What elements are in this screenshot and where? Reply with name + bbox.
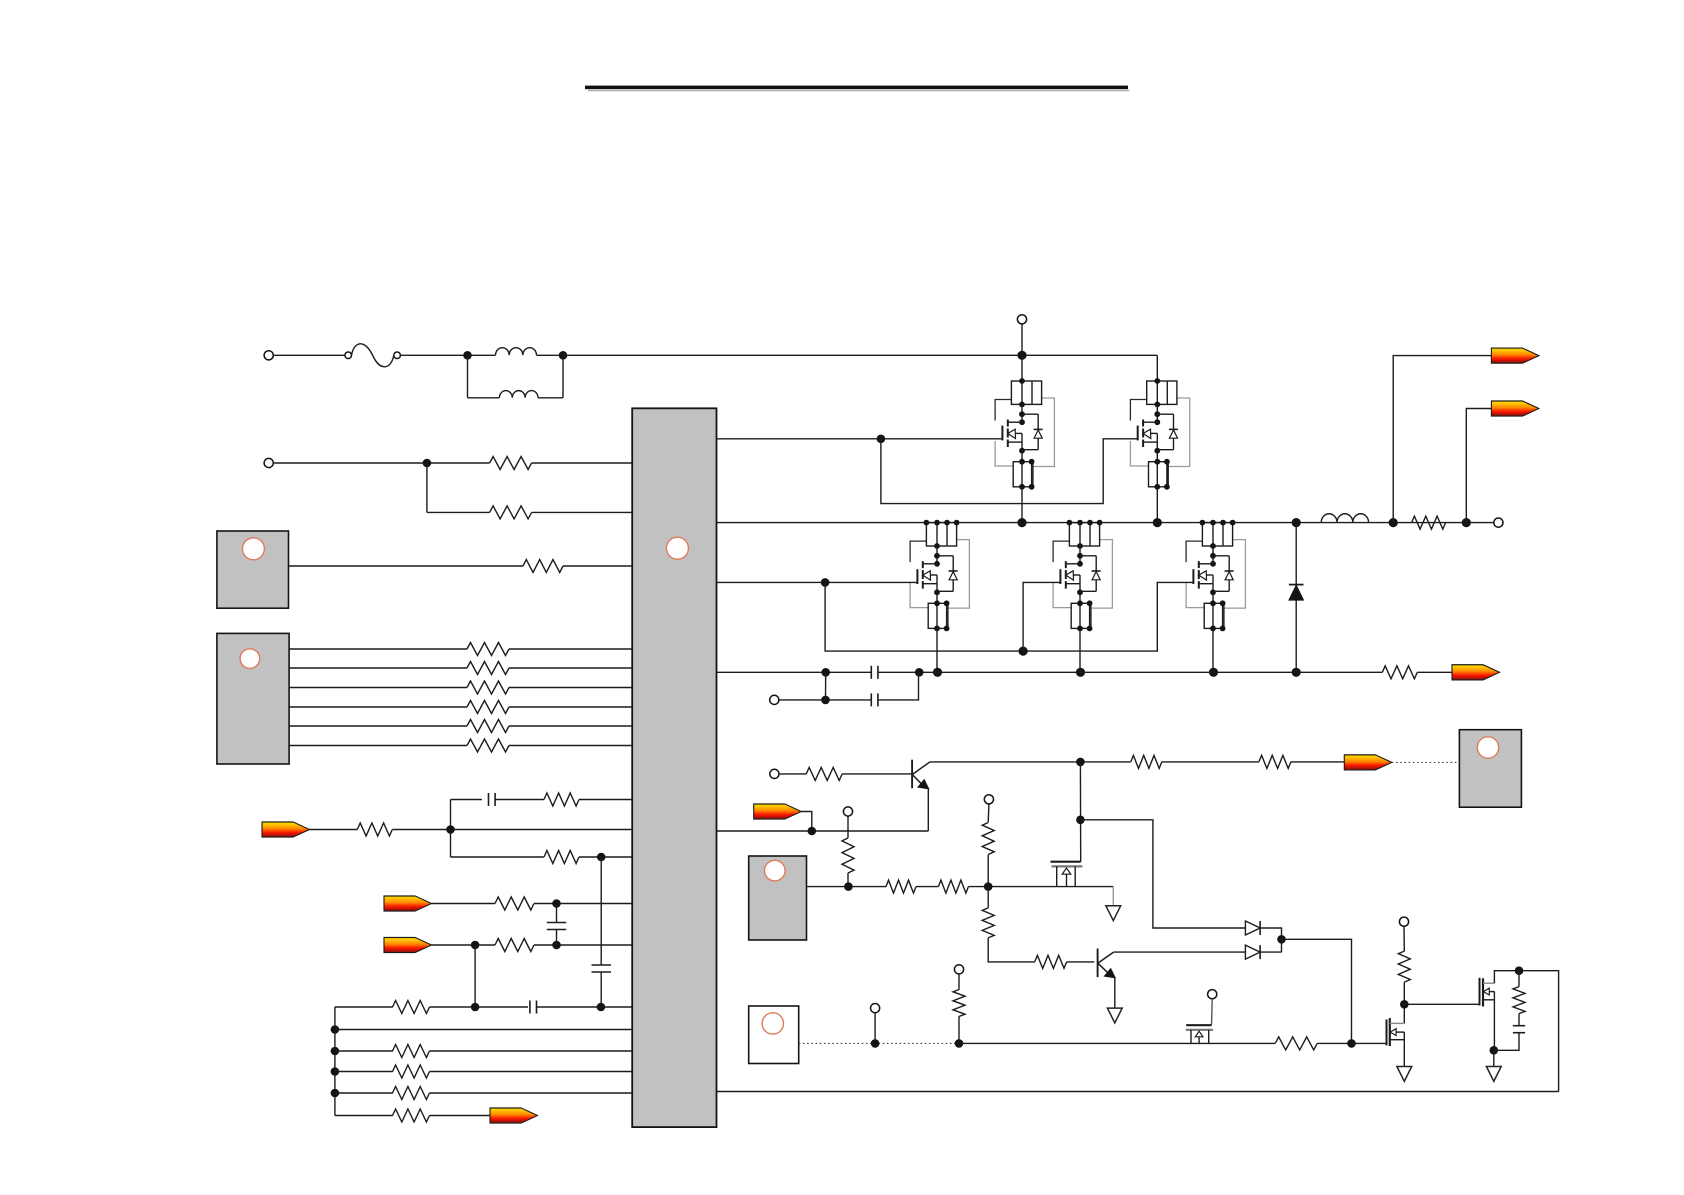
diode D1 xyxy=(1289,585,1304,601)
junction xyxy=(933,668,942,677)
wire gate drive high side xyxy=(717,438,1003,440)
wire xyxy=(509,706,632,708)
capacitor C7 xyxy=(1513,1026,1525,1033)
wire xyxy=(289,706,467,708)
junction xyxy=(331,1089,340,1098)
capacitor C6 xyxy=(871,693,878,706)
wire xyxy=(537,1006,633,1008)
wire xyxy=(717,830,929,832)
wire xyxy=(430,1071,633,1073)
wire xyxy=(430,1115,491,1117)
junction xyxy=(597,1003,606,1012)
wire xyxy=(1021,355,1023,381)
wire xyxy=(450,800,452,858)
wire xyxy=(1114,978,1116,1009)
capacitor C5 xyxy=(871,666,878,679)
wire gate drive low side xyxy=(717,581,917,583)
wire xyxy=(1067,961,1095,963)
junction xyxy=(1076,758,1085,767)
wire xyxy=(1403,982,1405,1023)
junction xyxy=(597,853,606,862)
wire xyxy=(987,855,989,887)
wire xyxy=(273,354,348,356)
wire xyxy=(825,672,827,700)
transistor Q11 (NMOS) xyxy=(1186,1025,1213,1043)
wire xyxy=(563,565,632,567)
wire xyxy=(1494,1033,1519,1051)
offpage connector A1 xyxy=(262,822,310,837)
wire xyxy=(1295,600,1297,672)
wire xyxy=(1393,356,1491,523)
junction xyxy=(331,1047,340,1056)
wire bottom rail xyxy=(717,1091,1559,1093)
junction xyxy=(1277,935,1286,944)
junction xyxy=(1400,1000,1409,1009)
wire xyxy=(1403,926,1405,951)
terminal P2 xyxy=(264,458,273,467)
wire xyxy=(881,439,1138,504)
junction xyxy=(1292,668,1301,677)
wire xyxy=(468,354,496,356)
wire xyxy=(1295,523,1297,585)
wire xyxy=(1021,487,1023,523)
wire xyxy=(987,804,990,822)
wire xyxy=(451,856,545,858)
junction xyxy=(1153,518,1162,527)
resistor R23 xyxy=(1259,755,1291,768)
resistor R34 xyxy=(1275,1037,1317,1050)
connector J1 box xyxy=(217,531,289,608)
wire rail xyxy=(334,1007,336,1116)
wire xyxy=(534,903,632,905)
offpage connector A8 xyxy=(1491,348,1539,363)
wire xyxy=(1211,999,1214,1025)
wire xyxy=(532,462,633,464)
resistor R13 xyxy=(495,939,534,952)
wire xyxy=(335,1071,393,1073)
wire xyxy=(1212,628,1214,672)
wire xyxy=(289,687,467,689)
wire xyxy=(432,944,496,946)
junction xyxy=(1515,966,1524,975)
terminal P1 xyxy=(264,351,273,360)
junction xyxy=(871,1039,880,1048)
wire xyxy=(392,829,632,831)
wire xyxy=(1079,628,1081,672)
wire xyxy=(936,628,938,672)
wire xyxy=(874,1013,876,1044)
transistor Q8 (NPN) xyxy=(1098,949,1117,979)
wire xyxy=(878,671,1382,673)
wire xyxy=(451,799,482,801)
wire xyxy=(467,355,469,398)
offpage connector A2 xyxy=(384,896,432,911)
junction xyxy=(915,668,924,677)
terminal P4 xyxy=(770,695,779,704)
offpage connector A4 xyxy=(490,1108,538,1123)
junction xyxy=(471,1003,480,1012)
resistor R10 xyxy=(544,793,579,806)
inductor L2 xyxy=(499,391,538,398)
terminal P8 xyxy=(984,795,993,804)
resistor R30 xyxy=(953,990,965,1017)
wire xyxy=(968,886,1113,888)
terminal P9 xyxy=(871,1004,880,1013)
ground xyxy=(1106,906,1121,921)
wire xyxy=(1466,409,1491,523)
offpage connector A3 xyxy=(384,937,432,952)
wire xyxy=(400,354,467,356)
ground xyxy=(1107,1008,1122,1023)
wire xyxy=(988,938,1035,962)
resistor R19 xyxy=(1382,666,1417,679)
wire xyxy=(474,945,476,1007)
resistor R14 xyxy=(393,1001,430,1014)
wire xyxy=(878,672,918,700)
wire xyxy=(534,944,632,946)
wire xyxy=(807,886,887,888)
wire xyxy=(509,687,632,689)
resistor R22 xyxy=(1131,755,1162,768)
resistor R18 xyxy=(393,1109,430,1122)
terminal P7 xyxy=(843,807,852,816)
wire xyxy=(427,511,490,513)
junction xyxy=(821,668,830,677)
resistor R8 xyxy=(467,720,509,733)
wire xyxy=(335,1006,393,1008)
wire xyxy=(959,1042,1275,1044)
wire xyxy=(310,829,358,831)
offpage connector A7 xyxy=(1452,665,1500,680)
wire xyxy=(430,1006,529,1008)
resistor R25 xyxy=(886,880,916,893)
wire xyxy=(289,565,524,567)
wire xyxy=(579,856,632,858)
wire xyxy=(958,974,960,990)
wire xyxy=(1156,355,1158,381)
wire xyxy=(532,511,633,513)
wire xyxy=(1291,761,1344,763)
resistor R20 xyxy=(1412,516,1446,529)
diode D2 xyxy=(1245,921,1260,935)
wire xyxy=(509,745,632,747)
resistor R16 xyxy=(393,1065,430,1078)
wire xyxy=(579,799,632,801)
wire xyxy=(600,972,602,1007)
transistor Q9 (NMOS) xyxy=(1387,1018,1405,1066)
junction xyxy=(877,435,886,444)
junction xyxy=(471,941,480,950)
dotted link xyxy=(799,1042,959,1044)
capacitor C1 xyxy=(489,793,496,806)
resistor R29 xyxy=(1035,955,1067,968)
wire xyxy=(1260,928,1281,952)
wire xyxy=(927,789,929,831)
junction xyxy=(1389,518,1398,527)
wire xyxy=(958,1016,960,1043)
junction xyxy=(1019,647,1028,656)
resistor R27 xyxy=(982,823,994,855)
offpage connector A6 xyxy=(1344,755,1392,770)
junction xyxy=(446,825,455,834)
junction xyxy=(955,1039,964,1048)
wire xyxy=(335,1092,393,1094)
terminal P12 xyxy=(1208,990,1217,999)
connector J4 box xyxy=(749,1006,799,1064)
junction xyxy=(808,827,817,836)
wire xyxy=(430,1050,633,1052)
wire xyxy=(556,930,558,946)
connector J2 box xyxy=(217,633,289,764)
wire xyxy=(1493,1050,1495,1066)
wire gate link xyxy=(1404,1003,1479,1005)
wire xyxy=(509,648,632,650)
wire xyxy=(538,397,563,399)
resistor R15 xyxy=(393,1045,430,1058)
resistor R24 xyxy=(842,838,854,873)
MOSFET module Q3 (low side) xyxy=(910,520,969,632)
wire xyxy=(842,773,912,775)
title underline xyxy=(585,86,1130,91)
resistor R1 xyxy=(490,457,532,470)
terminal P6 xyxy=(770,769,779,778)
MOSFET module Q2 (high side) xyxy=(1130,378,1189,490)
resistor R6 xyxy=(467,681,509,694)
wire xyxy=(289,648,467,650)
wire xyxy=(335,1029,632,1031)
wire xyxy=(1518,1014,1520,1026)
terminal P10 xyxy=(954,965,963,974)
capacitor C4 xyxy=(530,1001,537,1014)
junction xyxy=(463,351,472,360)
junction xyxy=(1490,1046,1499,1055)
ground xyxy=(1486,1067,1501,1082)
junction xyxy=(821,578,830,587)
ground xyxy=(1397,1067,1412,1082)
junction xyxy=(331,1025,340,1034)
wire xyxy=(289,725,467,727)
junction xyxy=(552,941,561,950)
wire xyxy=(916,886,938,888)
inductor L3 xyxy=(1321,514,1368,523)
connector J5 box xyxy=(1459,730,1521,808)
junction xyxy=(559,351,568,360)
resistor R7 xyxy=(467,701,509,714)
diode D3 xyxy=(1245,945,1260,959)
junction xyxy=(1017,518,1026,527)
transistor Q10 (NMOS) xyxy=(1480,978,1495,1051)
wire xyxy=(801,812,812,832)
IC U1 main controller block xyxy=(632,408,716,1127)
offpage connector A9 xyxy=(1491,401,1539,416)
junction xyxy=(1076,816,1085,825)
junction xyxy=(552,899,561,908)
connector J3 box xyxy=(749,856,807,940)
wire xyxy=(1317,1042,1351,1044)
wire xyxy=(289,745,467,747)
wire xyxy=(1162,761,1259,763)
inductor L1 xyxy=(496,348,537,356)
resistor R33 xyxy=(357,823,392,836)
wire xyxy=(1260,951,1281,953)
resistor R21 xyxy=(806,767,842,780)
wire xyxy=(600,857,602,965)
MOSFET module Q5 (low side) xyxy=(1186,520,1245,632)
wire xyxy=(509,725,632,727)
junction xyxy=(1462,518,1471,527)
wire xyxy=(930,761,1131,763)
wire xyxy=(432,903,496,905)
dotted link xyxy=(1392,761,1460,763)
fuse F1 xyxy=(345,344,401,367)
resistor R12 xyxy=(495,897,534,910)
wire xyxy=(495,799,544,801)
resistor R2 xyxy=(490,506,532,519)
transistor Q7 (NMOS) xyxy=(1051,862,1083,887)
wire xyxy=(335,1050,393,1052)
resistor R3 xyxy=(523,560,563,573)
wire xyxy=(1021,324,1023,355)
wire xyxy=(825,582,1193,651)
junction xyxy=(984,882,993,891)
wire shunt bus xyxy=(717,671,872,673)
wire xyxy=(987,887,989,908)
wire phase bus xyxy=(717,522,1499,524)
wire xyxy=(1417,671,1452,673)
wire xyxy=(1494,971,1558,1092)
wire xyxy=(289,667,467,669)
transistor Q6 (NPN) xyxy=(912,760,930,790)
junction xyxy=(821,696,830,705)
wire xyxy=(779,699,871,701)
wire main positive rail xyxy=(563,354,1157,356)
offpage connector A5 xyxy=(754,804,802,819)
wire xyxy=(426,463,428,512)
capacitor C2 xyxy=(547,923,566,930)
resistor R31 xyxy=(1398,951,1410,982)
junction xyxy=(1347,1039,1356,1048)
wire xyxy=(556,904,558,923)
wire xyxy=(1023,582,1060,651)
wire xyxy=(537,354,564,356)
resistor R28 xyxy=(982,908,994,938)
MOSFET module Q1 (high side) xyxy=(995,378,1054,490)
wire xyxy=(1352,1042,1387,1044)
resistor R32 xyxy=(1513,987,1525,1014)
terminal P3 xyxy=(1017,315,1026,324)
wire xyxy=(562,355,564,398)
wire xyxy=(1156,487,1158,523)
resistor R11 xyxy=(544,851,579,864)
junction xyxy=(1209,668,1218,677)
wire xyxy=(847,816,849,838)
wire xyxy=(468,397,500,399)
junction xyxy=(423,459,432,468)
resistor R9 xyxy=(467,739,509,752)
MOSFET module Q4 (low side) xyxy=(1053,520,1112,632)
wire xyxy=(273,462,489,464)
resistor R26 xyxy=(938,880,968,893)
junction xyxy=(1076,668,1085,677)
wire xyxy=(430,1092,633,1094)
wire xyxy=(1112,887,1114,906)
terminal P5 xyxy=(1494,518,1503,527)
resistor R17 xyxy=(393,1087,430,1100)
resistor R5 xyxy=(467,662,509,675)
wire xyxy=(779,773,806,775)
wire xyxy=(847,873,849,887)
capacitor C3 xyxy=(592,965,611,972)
terminal P11 xyxy=(1399,917,1408,926)
junction xyxy=(1292,518,1301,527)
resistor R4 xyxy=(467,643,509,656)
wire xyxy=(1113,951,1245,953)
wire xyxy=(1518,971,1520,987)
junction xyxy=(1017,351,1026,360)
wire xyxy=(335,1115,393,1117)
wire xyxy=(1079,762,1081,862)
junction xyxy=(844,882,853,891)
wire xyxy=(1080,820,1245,928)
wire xyxy=(1282,939,1352,1043)
wire xyxy=(509,667,632,669)
junction xyxy=(331,1067,340,1076)
